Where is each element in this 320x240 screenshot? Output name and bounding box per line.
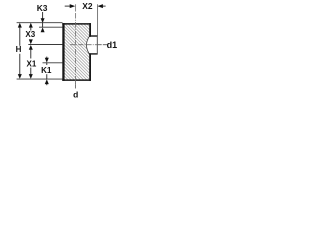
pipe body hatched section (63, 23, 91, 80)
vertical centerline of pipe (75, 4, 77, 11)
socket bottom edge (89, 53, 97, 55)
d leader line (75, 81, 77, 89)
branch socket white cut-out (86, 36, 97, 53)
K1 line to bottom (46, 74, 48, 79)
svg-text:X3: X3 (25, 30, 35, 39)
H dimension line lower (19, 54, 21, 75)
socket right edge (96, 35, 98, 54)
H top arrow (up) (18, 23, 22, 28)
K3 dimension line upper (42, 12, 44, 19)
X1 bottom arrow (down) (29, 74, 33, 79)
pipe left edge (62, 23, 64, 81)
H dimension line (19, 27, 21, 46)
branch socket ball arc (86, 36, 89, 54)
K1 bottom arrow (up, outside) (45, 79, 49, 84)
H bottom arrow (down) (18, 74, 22, 79)
pipe bottom edge (62, 79, 91, 81)
horizontal branch centerline (70, 44, 98, 46)
X2 dimension line left tail (65, 5, 70, 7)
X1 top arrow (up) (29, 45, 33, 50)
X1 dimension line (30, 49, 32, 58)
pipe right edge upper (89, 23, 91, 37)
X2 right extension line (97, 4, 99, 35)
svg-text:H: H (16, 45, 22, 54)
extension line K1 upper (42, 62, 62, 64)
socket top edge (89, 35, 97, 37)
pipe top edge (62, 23, 91, 25)
pipe right edge lower (89, 53, 91, 80)
K3 bottom arrow (up) (41, 27, 45, 32)
K1 top arrow (down, outside) (46, 57, 48, 59)
X3 top arrow (up) (29, 23, 33, 28)
X2 right arrow (97, 4, 103, 8)
X1 dimension line lower (30, 68, 32, 75)
K3 stub between lines (42, 23, 44, 27)
svg-text:d: d (73, 89, 78, 99)
svg-text:X1: X1 (26, 59, 36, 68)
extension line socket depth K3 (39, 26, 62, 28)
svg-text:K3: K3 (37, 3, 48, 13)
K1 stub below line (46, 63, 48, 65)
K3 top arrow (down) (41, 18, 45, 23)
extension line branch centerline level (28, 43, 62, 45)
svg-text:K1: K1 (41, 66, 52, 75)
X2 left arrow (70, 4, 76, 8)
X3 dimension line (30, 27, 32, 30)
X2 dimension line right tail (103, 5, 106, 7)
extension line bottom (fitting bottom) (17, 78, 63, 80)
d1 leader line (98, 44, 108, 46)
svg-text:d1: d1 (107, 40, 118, 50)
extension line top (fitting top) (17, 22, 63, 24)
svg-text:X2: X2 (82, 1, 93, 11)
X3 bottom arrow (down) (29, 39, 33, 44)
